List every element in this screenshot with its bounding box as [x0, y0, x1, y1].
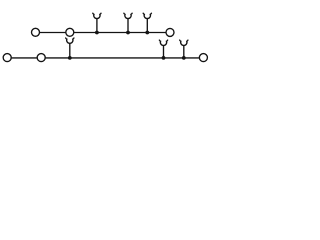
wire stem up from J5: [163, 46, 165, 58]
terminal circle 1 (top level, clamp point 1): [32, 28, 40, 36]
plug socket symbol Y2 (top rail): [124, 13, 132, 18]
plug socket symbol Y5 (bottom rail): [159, 40, 167, 45]
wire stub up from J1: [96, 19, 98, 33]
wire bottom rail segment 2: [46, 57, 199, 59]
wire stub up from J3: [146, 19, 148, 33]
wire stem up from J6: [183, 46, 185, 58]
wire stem up from J4: [69, 43, 71, 58]
terminal circle 6 (bottom level, right end): [199, 54, 207, 62]
wire bottom rail segment 1: [12, 57, 37, 59]
plug socket symbol Y3 (top rail): [143, 13, 151, 18]
node junction dot J4 on bottom rail: [68, 56, 72, 60]
wire top rail segment 2: [74, 32, 165, 34]
plug socket symbol Y6 (bottom rail): [180, 40, 188, 45]
node junction dot J2 on top rail: [126, 31, 130, 35]
plug socket symbol Y1 (top rail): [93, 13, 101, 18]
terminal circle 3 (top level, right end): [166, 28, 174, 36]
wire top rail segment 1: [40, 32, 65, 34]
terminal circle 5 (bottom level, clamp point): [37, 54, 45, 62]
terminal circle 4 (bottom level, left end): [3, 54, 11, 62]
node junction dot J3 on top rail: [145, 31, 149, 35]
node junction dot J6 on bottom rail: [182, 56, 186, 60]
plug socket symbol Y4 (bottom rail, under circle 2): [66, 38, 74, 43]
node junction dot J1 on top rail: [95, 31, 99, 35]
node junction dot J5 on bottom rail: [162, 56, 166, 60]
terminal circle 2 (top level, clamp point 2): [66, 28, 74, 36]
wire stub up from J2: [127, 19, 129, 33]
